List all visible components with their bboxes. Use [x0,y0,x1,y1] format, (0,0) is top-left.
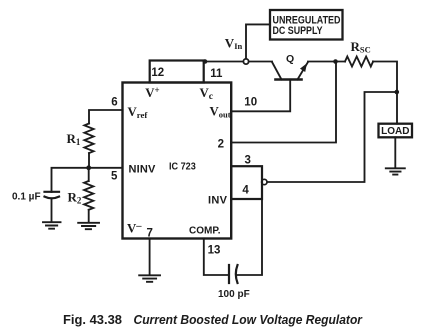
ground R2 [78,223,99,229]
svg-text:5: 5 [111,171,118,183]
svg-text:10: 10 [244,97,257,109]
svg-text:Vref: Vref [128,105,149,120]
svg-text:COMP.: COMP. [189,226,221,237]
resistor RSC [345,57,373,67]
wire pin 6 [89,110,123,124]
svg-text:R1: R1 [67,131,81,147]
wire pin 2 [231,62,336,143]
svg-text:DC SUPPLY: DC SUPPLY [273,25,324,37]
wire RSC to load rail [373,62,397,124]
svg-text:Fig. 43.38: Fig. 43.38 [63,313,122,327]
svg-text:13: 13 [208,245,221,257]
svg-text:Vout: Vout [210,104,231,119]
svg-text:11: 11 [210,68,223,80]
wire pin4 box to capacitor C2 [237,199,262,275]
wire node A to capacitor C1 [52,168,89,192]
svg-text:2: 2 [218,139,224,151]
svg-text:Current Boosted Low Voltage Re: Current Boosted Low Voltage Regulator [134,312,363,327]
wire C1 to ground [51,198,53,222]
transistor Q1 emitter wire [298,62,309,80]
wire pin 5 [89,167,123,169]
resistor R1 [84,124,93,154]
wire load to ground [394,137,396,168]
node pin 4 output circle [262,179,267,184]
wire Vin to supply [246,24,270,61]
wire pin 13 to capacitor C2 [204,239,229,276]
svg-text:12: 12 [151,67,164,79]
svg-text:INV: INV [208,195,228,207]
svg-text:3: 3 [244,155,250,167]
unregulated DC supply box [270,10,343,40]
wire node A to R2 [88,168,90,181]
svg-text:Q: Q [286,53,294,65]
transistor Q1 base bar [276,78,302,81]
svg-text:V–: V– [127,221,142,236]
svg-text:6: 6 [111,97,117,109]
wire R2 to ground [88,210,90,223]
op-amp U1 IC 723 body [123,83,232,239]
junction node A [86,165,91,170]
svg-text:7: 7 [146,228,152,240]
ground C1 [43,222,61,229]
svg-text:0.1 µF: 0.1 µF [12,192,41,203]
IC 723 top notch (pins 12/11) [150,61,204,83]
svg-text:LOAD: LOAD [381,126,409,137]
ground pin 7 [139,275,160,282]
junction emitter node [333,59,338,64]
wire R1 to node A [88,153,90,168]
transistor Q1 emitter arrow [300,63,307,72]
svg-text:100 pF: 100 pF [218,289,250,300]
wire emitter to RSC [308,61,345,63]
svg-text:VIn: VIn [225,35,243,51]
svg-text:R2: R2 [68,190,82,206]
LOAD box [379,124,413,138]
svg-text:Vc: Vc [200,86,213,102]
svg-text:NINV: NINV [129,164,157,176]
wire pin 10 to base [231,80,290,112]
junction load feedback [395,90,400,95]
resistor R2 [84,181,93,210]
svg-text:4: 4 [242,185,249,197]
capacitor C2 100pF plates [228,265,230,283]
capacitor C1 0.1uF plates [45,191,60,193]
junction pin 11 rail [203,59,208,64]
node Vin [243,59,248,64]
wire pin 7 to ground [149,239,151,276]
wire feedback top [267,92,397,182]
transistor Q1 collector wire [272,62,282,80]
pins 3/4 box [231,166,262,199]
svg-text:RSC: RSC [351,39,371,55]
ground load [386,168,405,174]
svg-text:IC 723: IC 723 [169,162,196,173]
svg-text:V+: V+ [145,85,159,100]
wire rail notch to Vin node [204,61,272,63]
